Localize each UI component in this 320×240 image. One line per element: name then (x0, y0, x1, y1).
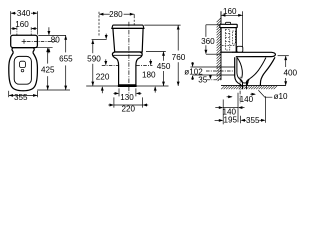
svg-text:450: 450 (157, 62, 171, 71)
svg-text:220: 220 (121, 105, 135, 114)
extension line left of 340 (10, 11, 12, 34)
dim 355 (9, 93, 38, 102)
outlet tick 238 (237, 93, 239, 123)
wall line (220, 11, 222, 80)
dashed extension left of 280 (98, 12, 100, 37)
dim 360 (201, 25, 215, 54)
cistern plan (11, 35, 38, 47)
outlet centerline (239, 77, 241, 104)
svg-text:280: 280 (109, 10, 123, 19)
seat line front (112, 54, 142, 56)
svg-text:160: 160 (15, 20, 29, 29)
floor line middle (86, 85, 168, 87)
svg-text:760: 760 (172, 53, 186, 62)
svg-text:130: 130 (120, 93, 134, 102)
extension seat top to 400 (278, 55, 289, 57)
dim 160 (11, 20, 37, 30)
cistern internals dashed (222, 30, 236, 51)
centerline right hole (30, 27, 32, 49)
svg-text:590: 590 (87, 54, 101, 63)
dim 140 upper (227, 93, 256, 104)
pedestal base bar (118, 85, 137, 87)
small circle detail (21, 69, 24, 72)
extension line cistern top to 655 (38, 34, 66, 36)
svg-text:220: 220 (96, 73, 110, 82)
wall hatch (217, 18, 221, 81)
bowl underside inner curve (249, 58, 266, 79)
extension ticks 130 (118, 88, 120, 96)
trap inner top curve (237, 57, 242, 78)
seat outline plan (9, 48, 38, 91)
dim 590 (87, 40, 101, 86)
cistern side lid (220, 24, 237, 27)
svg-text:195: 195 (223, 116, 237, 125)
cistern button (226, 22, 231, 24)
reference line 590 top (92, 39, 107, 41)
bowl rear outer wall (235, 57, 242, 85)
pipe centerline (206, 70, 235, 72)
center line middle (128, 22, 130, 94)
dim 35 (198, 75, 221, 85)
trap dip (240, 79, 249, 83)
extension right of 280 (133, 14, 135, 18)
flush hole detail (20, 61, 26, 67)
dim 655 (59, 35, 73, 90)
reference line 450 top (146, 50, 166, 52)
tick 355 left (240, 116, 242, 124)
extension line bowl bottom (37, 89, 70, 91)
svg-text:ø10: ø10 (274, 92, 288, 101)
dim 80 (47, 27, 60, 53)
svg-text:340: 340 (17, 9, 31, 18)
pipe stub top right of wall (222, 66, 235, 68)
seat lid side (232, 52, 275, 56)
mystery arrow at pedestal front (246, 81, 249, 86)
dim 355 bottom (241, 116, 266, 125)
extension line seat top to 80 (36, 47, 53, 49)
dim 220 bottom (108, 104, 148, 114)
dim 160 top (221, 7, 243, 17)
extension cistern top to 760 (144, 24, 180, 26)
fixing hole centerline vertical (264, 96, 266, 123)
cistern side body (221, 28, 236, 53)
leader diameter 10 (258, 90, 288, 101)
dim 140 lower (215, 106, 244, 116)
svg-text:355: 355 (14, 93, 28, 102)
floor hatch right (221, 86, 277, 89)
dim 280 (99, 10, 134, 19)
centerline left hole (16, 27, 18, 49)
seat inner opening (14, 56, 31, 84)
dim 220 left (96, 59, 110, 93)
svg-text:180: 180 (142, 71, 156, 80)
reference line 360 bottom (206, 53, 221, 55)
dim 400 (283, 56, 297, 86)
svg-text:400: 400 (283, 68, 297, 77)
svg-text:360: 360 (201, 37, 215, 46)
cistern front body (113, 28, 143, 52)
dim 180 right (142, 59, 157, 92)
svg-text:160: 160 (223, 7, 237, 16)
fixing hole centerline (102, 65, 119, 67)
wall extension bottom (222, 100, 224, 125)
dim diameter 102 (184, 62, 203, 80)
cistern front lid (112, 25, 144, 28)
outlet pipe bottom line (193, 74, 221, 76)
dim 425 (41, 48, 55, 90)
extension ticks 220 bottom (113, 97, 115, 107)
extension line right of 340 (36, 11, 38, 34)
pipe stub bottom right of wall (222, 74, 235, 76)
bowl front body (112, 52, 142, 85)
center cross marker (22, 39, 57, 44)
svg-text:425: 425 (41, 66, 55, 75)
extension right of 160 (242, 11, 244, 46)
dim 450 (157, 51, 171, 86)
dim 195 (215, 116, 238, 125)
seat hinge (237, 46, 243, 52)
svg-text:35: 35 (198, 76, 208, 85)
bowl rear inner wall (237, 57, 240, 79)
leader arrow to inlet (105, 34, 108, 40)
dim 340 (11, 9, 38, 18)
bowl front face (260, 57, 275, 85)
dim 130 (114, 92, 142, 102)
floor line right (221, 85, 286, 87)
svg-text:355: 355 (246, 116, 260, 125)
svg-text:655: 655 (59, 55, 73, 64)
svg-text:80: 80 (51, 35, 61, 44)
outlet pipe top line (191, 66, 222, 68)
dim 760 (172, 25, 186, 86)
reference line 360 top (206, 24, 221, 26)
svg-text:140: 140 (240, 95, 254, 104)
extension ticks 355 (8, 91, 10, 97)
outlet leg through floor (240, 79, 249, 89)
